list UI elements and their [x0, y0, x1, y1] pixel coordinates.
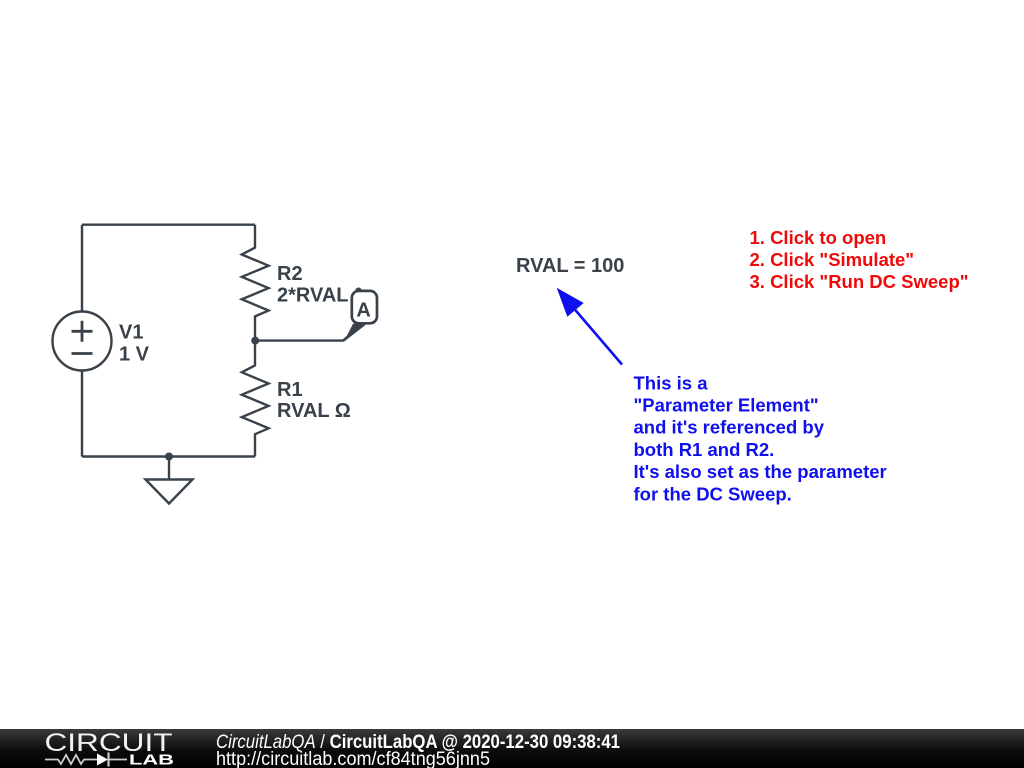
ground: [146, 457, 193, 504]
svg-text:2*RVAL: 2*RVAL: [277, 285, 349, 307]
node A junction dot: [251, 337, 259, 345]
wire node A to flag: [255, 325, 361, 341]
wire left lower: [81, 371, 83, 457]
svg-text:and it's referenced by: and it's referenced by: [634, 417, 825, 438]
svg-text:http://circuitlab.com/cf84tng5: http://circuitlab.com/cf84tng56jnn5: [216, 749, 490, 768]
svg-text:R1: R1: [277, 379, 303, 401]
resistor R1: [242, 341, 269, 457]
wire top: [82, 223, 255, 225]
footer bar: [0, 729, 1024, 768]
svg-text:R2: R2: [277, 263, 303, 285]
svg-text:RVAL Ω: RVAL Ω: [277, 400, 351, 422]
svg-text:1 V: 1 V: [119, 343, 150, 365]
ground junction dot: [165, 453, 173, 461]
node name flag A: [344, 288, 377, 343]
svg-text:3. Click "Run DC Sweep": 3. Click "Run DC Sweep": [750, 271, 969, 292]
svg-text:for the DC Sweep.: for the DC Sweep.: [634, 483, 792, 504]
blue arrow: [557, 288, 622, 365]
svg-text:2. Click "Simulate": 2. Click "Simulate": [750, 249, 915, 270]
svg-text:both R1 and R2.: both R1 and R2.: [634, 439, 775, 460]
svg-text:This is a: This is a: [634, 372, 709, 393]
wire left upper: [81, 225, 83, 312]
svg-text:LAB: LAB: [129, 752, 174, 768]
svg-text:It's also set as the parameter: It's also set as the parameter: [634, 461, 887, 482]
svg-text:V1: V1: [119, 321, 143, 343]
svg-text:A: A: [356, 300, 370, 322]
wire bottom: [82, 455, 255, 457]
svg-text:RVAL = 100: RVAL = 100: [516, 255, 624, 277]
voltage source V1: [53, 312, 112, 371]
svg-text:"Parameter Element": "Parameter Element": [634, 395, 819, 416]
svg-text:1. Click to open: 1. Click to open: [750, 227, 887, 248]
logo resistor squiggle and diode: [45, 753, 127, 767]
resistor R2: [242, 225, 269, 341]
